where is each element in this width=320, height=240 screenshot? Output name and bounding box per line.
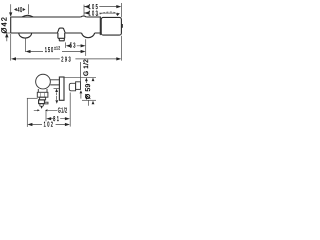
dim text Ø59 rotated bbox=[85, 84, 92, 100]
svg-text:G1/2: G1/2 bbox=[58, 107, 68, 115]
dim text Ø42 rotated bbox=[0, 16, 9, 33]
arrow 53 left bbox=[66, 44, 71, 47]
svg-text:±12: ±12 bbox=[54, 45, 60, 50]
outlet nut bbox=[37, 92, 48, 97]
label G1/2 outlet bbox=[58, 107, 68, 115]
arrow G1/2 leader bbox=[92, 78, 95, 82]
body bottom line bbox=[11, 32, 101, 34]
dim 81 left ext bbox=[45, 110, 47, 121]
knob base bbox=[59, 38, 64, 41]
svg-text:G 1/2: G 1/2 bbox=[83, 59, 90, 76]
outlet ring bbox=[40, 97, 46, 100]
arrow 103 right bbox=[116, 13, 120, 16]
arrow small up bbox=[55, 89, 58, 92]
arrow 40 down bbox=[9, 12, 12, 17]
dim text 150 bbox=[45, 47, 54, 54]
arrow 102 left bbox=[27, 123, 32, 126]
arrow nipple left bbox=[37, 109, 39, 111]
escutcheon top view bbox=[101, 17, 121, 35]
knob dome bbox=[57, 28, 65, 33]
arrow outlet down bbox=[40, 106, 43, 109]
tick under hub bbox=[54, 88, 60, 90]
dim 53 ext and line bbox=[66, 42, 82, 48]
arrow 150 right bbox=[81, 50, 86, 53]
arrow 53 right bbox=[81, 44, 86, 47]
svg-text:40: 40 bbox=[17, 7, 22, 14]
dim 40 ext lines bbox=[11, 4, 29, 14]
hose stub bbox=[45, 102, 48, 104]
dim 102 left ext bbox=[26, 98, 28, 127]
dashed swivel arc bbox=[97, 12, 119, 16]
dim text 105 bbox=[89, 4, 100, 11]
dim text 53 bbox=[70, 43, 77, 50]
union wall flange bbox=[76, 82, 81, 90]
dim 150 left ext bbox=[24, 38, 26, 52]
tick at outlet ring bbox=[27, 97, 38, 99]
union top bump bbox=[81, 16, 87, 17]
union bottom arc bbox=[82, 33, 95, 38]
small dim line bbox=[56, 92, 58, 100]
arrow 150 left bbox=[26, 50, 31, 53]
svg-text:Ø 59: Ø 59 bbox=[85, 84, 92, 100]
svg-text:150: 150 bbox=[45, 47, 54, 54]
nut knurl bbox=[41, 92, 45, 97]
svg-text:103: 103 bbox=[89, 11, 100, 18]
dim text 150 tolerance bbox=[54, 45, 60, 50]
dim text 103 bbox=[89, 11, 100, 18]
dim text 81 bbox=[53, 116, 60, 123]
dim 103 line bbox=[84, 12, 116, 14]
arrow 40 right glyph bbox=[23, 8, 26, 11]
dim 293 right ext bbox=[120, 36, 122, 61]
arrow 293 right bbox=[116, 57, 121, 60]
dim Ø59 bottom tick bbox=[82, 99, 96, 101]
label G 1/2 rotated bbox=[83, 59, 90, 76]
dim Ø59 top tick bbox=[64, 76, 96, 78]
G1/2 leader line bbox=[34, 109, 57, 111]
dim Ø59 stem bbox=[81, 81, 89, 106]
outlet neck bbox=[38, 89, 47, 92]
arrow 40 left glyph bbox=[14, 8, 17, 11]
wall tab bbox=[120, 25, 123, 28]
dim 150 line bbox=[30, 51, 81, 53]
escutcheon side view bbox=[59, 77, 64, 100]
arrow at flange bottom bbox=[80, 90, 83, 93]
dim text 40 bbox=[17, 7, 22, 14]
svg-text:53: 53 bbox=[70, 43, 77, 50]
spout arc bbox=[19, 33, 32, 38]
arrow Ø59 down bbox=[85, 97, 88, 101]
union body bbox=[69, 83, 75, 91]
arrow Ø59 up bbox=[85, 78, 88, 82]
dim text 293 bbox=[61, 56, 72, 63]
arrow 105 left bbox=[84, 5, 89, 8]
svg-text:293: 293 bbox=[61, 56, 72, 63]
dim right ext bbox=[69, 93, 71, 127]
dim Ø42 tick bbox=[4, 33, 12, 41]
arrow Ø42 up bbox=[5, 33, 8, 37]
handle circle bbox=[36, 74, 51, 89]
arrow lower leader bbox=[92, 101, 95, 105]
body top line bbox=[11, 16, 101, 18]
arrow 103 left bbox=[84, 11, 89, 14]
wall line bbox=[80, 62, 82, 82]
dim text 102 bbox=[44, 122, 55, 129]
svg-text:102: 102 bbox=[44, 122, 55, 129]
arrow 105 right bbox=[116, 5, 121, 8]
arrow 102 right bbox=[65, 123, 70, 126]
svg-text:Ø42: Ø42 bbox=[0, 16, 9, 33]
escutcheon inner edge bbox=[99, 17, 101, 35]
nipple bbox=[40, 104, 43, 107]
knob sides bbox=[58, 33, 65, 38]
outlet tip bbox=[39, 100, 45, 104]
dim 102 line bbox=[32, 124, 66, 126]
dim 81 line bbox=[50, 118, 65, 120]
hub bbox=[50, 80, 59, 85]
dim 105/103 right ext bbox=[120, 3, 122, 17]
dim 293 left ext bbox=[10, 34, 12, 61]
dim 105 line bbox=[84, 6, 117, 8]
arrow 293 left bbox=[11, 57, 16, 60]
arrow 81 left bbox=[46, 117, 51, 120]
arrow small down bbox=[55, 100, 58, 103]
arrow nipple right bbox=[45, 109, 47, 111]
arrow 81 right bbox=[65, 117, 70, 120]
dim 293 line bbox=[16, 58, 117, 60]
body left end bbox=[10, 17, 12, 33]
dim 105/103 left ext bbox=[83, 5, 85, 16]
dim 150 right ext bbox=[85, 39, 87, 56]
handle dome bbox=[22, 15, 33, 17]
